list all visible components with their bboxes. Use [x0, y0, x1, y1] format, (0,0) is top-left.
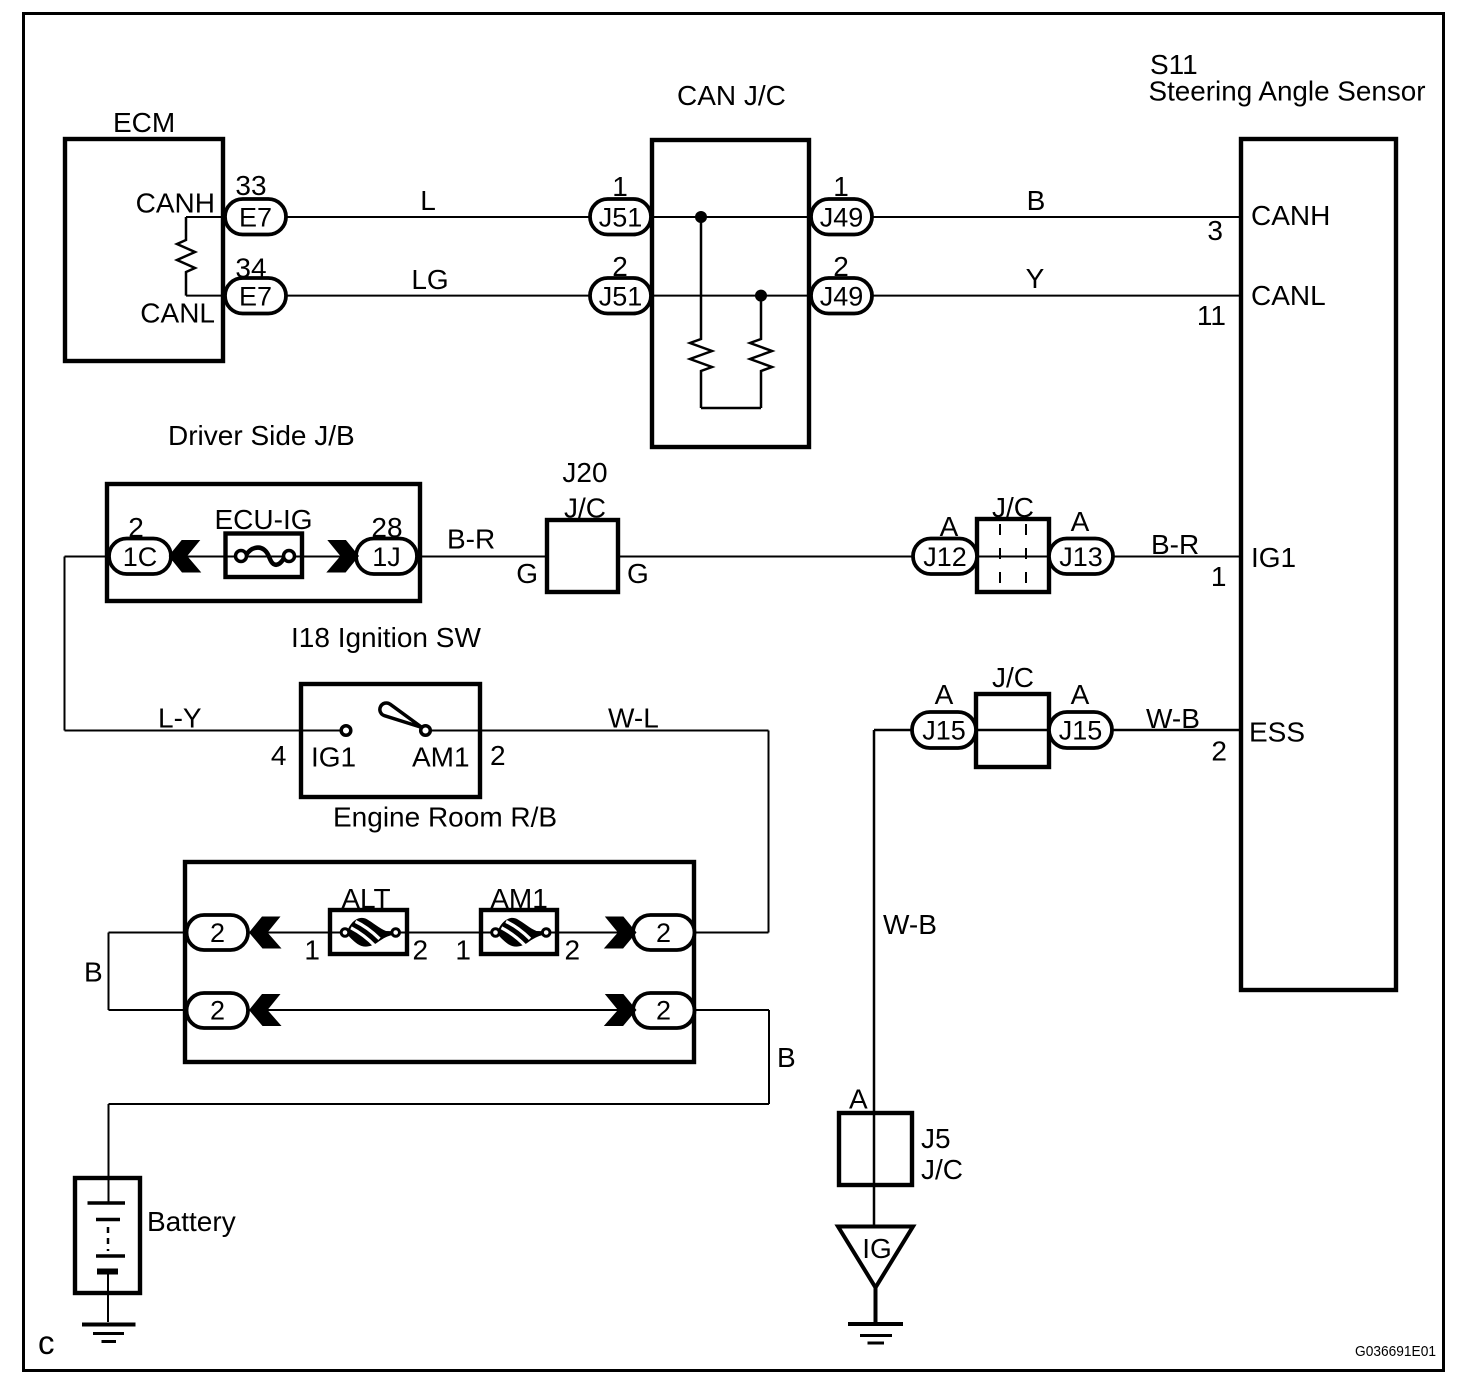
svg-text:ECU-IG: ECU-IG [215, 504, 313, 535]
svg-text:L: L [420, 185, 436, 216]
svg-text:2: 2 [210, 996, 225, 1026]
svg-text:AM1: AM1 [490, 883, 548, 914]
svg-text:IG1: IG1 [311, 742, 356, 773]
svg-text:J13: J13 [1059, 542, 1103, 572]
svg-text:J51: J51 [599, 203, 643, 233]
svg-text:Driver Side J/B: Driver Side J/B [168, 420, 355, 451]
svg-text:2: 2 [612, 251, 628, 282]
svg-text:E7: E7 [239, 282, 272, 312]
svg-text:2: 2 [1211, 736, 1227, 767]
svg-text:1: 1 [833, 171, 849, 202]
svg-text:B: B [777, 1042, 796, 1073]
svg-text:34: 34 [235, 253, 266, 284]
svg-text:J/C: J/C [921, 1154, 963, 1185]
svg-text:CANL: CANL [1251, 280, 1326, 311]
svg-text:3: 3 [1207, 215, 1223, 246]
svg-text:1: 1 [1211, 561, 1227, 592]
svg-text:2: 2 [210, 918, 225, 948]
svg-text:2: 2 [833, 251, 849, 282]
svg-text:J49: J49 [820, 282, 864, 312]
svg-text:Battery: Battery [147, 1206, 236, 1237]
svg-text:1: 1 [304, 935, 320, 966]
svg-text:J49: J49 [820, 203, 864, 233]
svg-text:J/C: J/C [564, 493, 606, 524]
svg-text:1C: 1C [123, 542, 158, 572]
svg-text:G: G [516, 558, 538, 589]
svg-text:A: A [935, 679, 954, 710]
svg-text:W-B: W-B [1146, 703, 1200, 734]
svg-text:2: 2 [656, 918, 671, 948]
svg-text:1: 1 [612, 171, 628, 202]
svg-text:2: 2 [490, 740, 506, 771]
svg-text:CANH: CANH [136, 188, 215, 219]
svg-text:A: A [1071, 679, 1090, 710]
svg-text:E7: E7 [239, 203, 272, 233]
svg-text:J15: J15 [1059, 716, 1103, 746]
svg-text:2: 2 [565, 935, 581, 966]
svg-text:c: c [38, 1324, 55, 1361]
svg-text:1J: 1J [372, 542, 401, 572]
svg-text:Engine Room R/B: Engine Room R/B [333, 802, 557, 833]
svg-text:2: 2 [656, 996, 671, 1026]
svg-text:I18 Ignition SW: I18 Ignition SW [291, 622, 481, 653]
svg-text:Steering Angle Sensor: Steering Angle Sensor [1149, 76, 1426, 107]
svg-text:J/C: J/C [992, 662, 1034, 693]
svg-text:W-B: W-B [883, 909, 937, 940]
svg-text:B: B [1027, 185, 1046, 216]
svg-text:ALT: ALT [341, 883, 390, 914]
svg-text:J/C: J/C [992, 492, 1034, 523]
svg-text:CANL: CANL [140, 298, 215, 329]
svg-text:ESS: ESS [1249, 717, 1305, 748]
svg-text:B: B [84, 957, 103, 988]
svg-text:J5: J5 [921, 1123, 951, 1154]
svg-text:2: 2 [128, 512, 144, 543]
svg-text:A: A [849, 1084, 868, 1115]
svg-text:ECM: ECM [113, 107, 175, 138]
svg-text:J51: J51 [599, 282, 643, 312]
svg-text:A: A [1071, 506, 1090, 537]
svg-text:4: 4 [271, 740, 287, 771]
svg-text:AM1: AM1 [412, 742, 470, 773]
svg-text:J12: J12 [923, 542, 967, 572]
svg-text:G: G [627, 558, 649, 589]
svg-text:2: 2 [413, 935, 429, 966]
svg-text:W-L: W-L [608, 703, 659, 734]
svg-text:33: 33 [235, 170, 266, 201]
svg-text:Y: Y [1026, 263, 1045, 294]
svg-text:A: A [940, 511, 959, 542]
svg-text:11: 11 [1197, 300, 1226, 331]
svg-text:1: 1 [455, 935, 471, 966]
svg-text:J15: J15 [922, 716, 966, 746]
svg-text:J20: J20 [562, 457, 607, 488]
svg-text:B-R: B-R [1151, 529, 1199, 560]
svg-text:IG: IG [862, 1233, 892, 1264]
svg-text:28: 28 [371, 512, 402, 543]
svg-text:B-R: B-R [447, 524, 495, 555]
svg-text:G036691E01: G036691E01 [1355, 1343, 1436, 1360]
svg-text:IG1: IG1 [1251, 542, 1296, 573]
svg-text:CANH: CANH [1251, 200, 1330, 231]
svg-text:LG: LG [411, 264, 448, 295]
svg-text:L-Y: L-Y [158, 703, 202, 734]
svg-text:CAN J/C: CAN J/C [677, 80, 786, 111]
